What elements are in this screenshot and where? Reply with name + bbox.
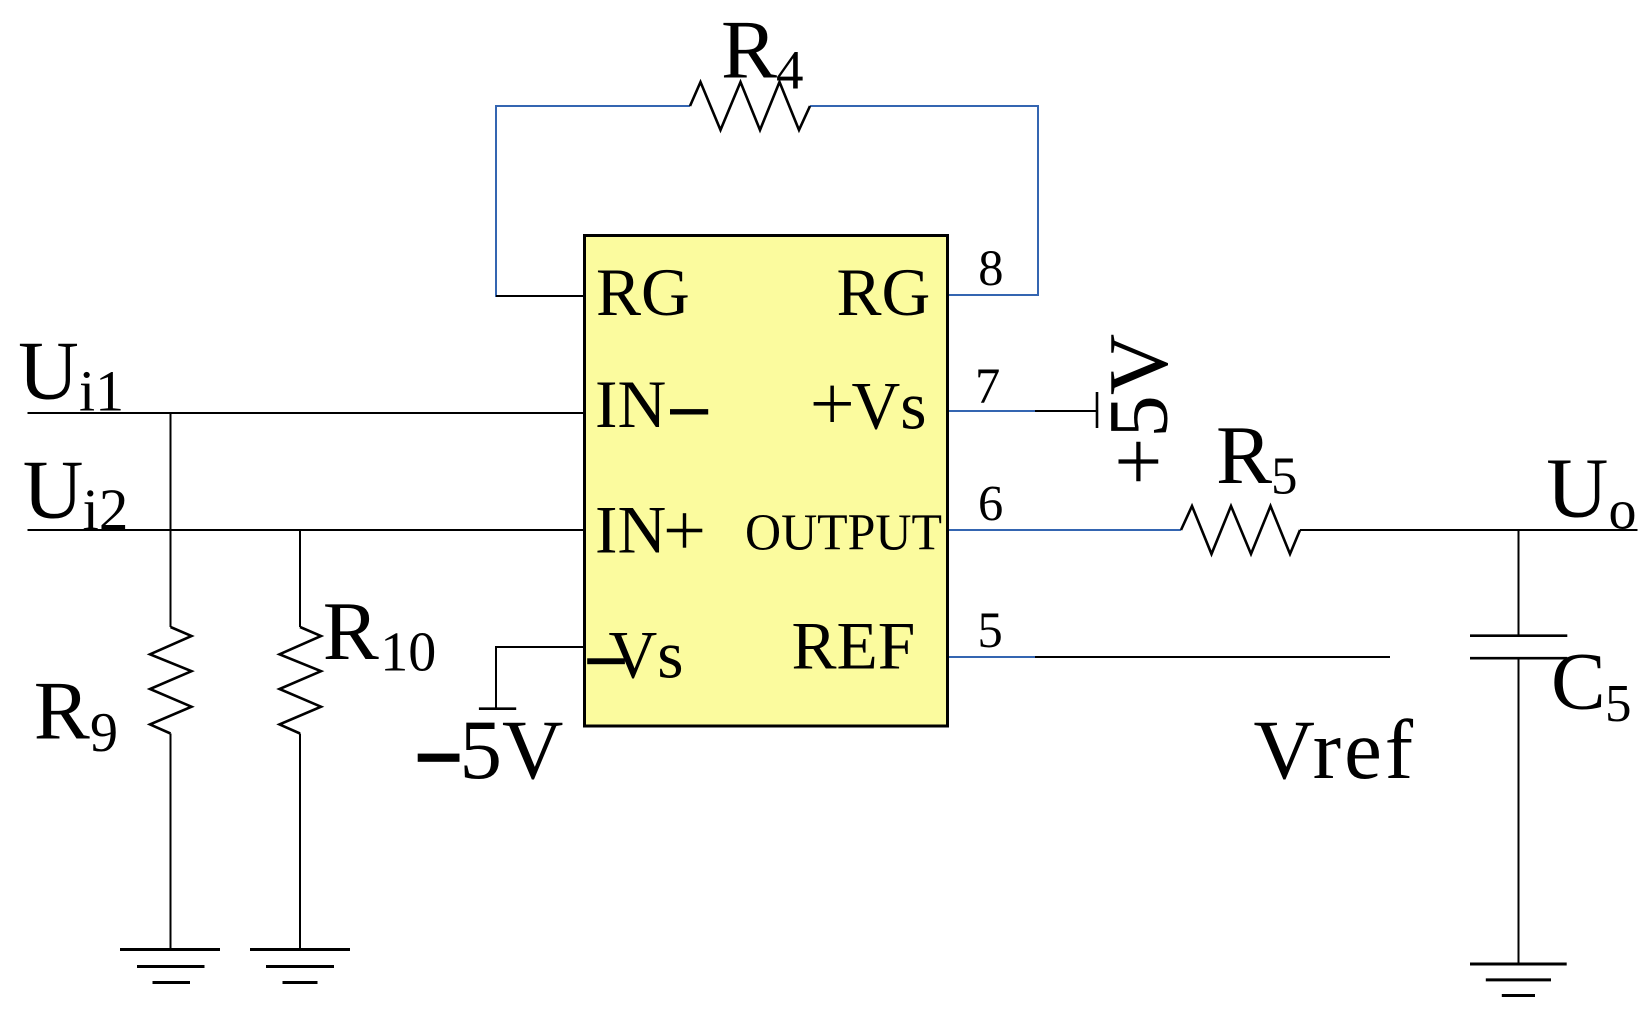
svg-text:5: 5: [1271, 448, 1298, 506]
svg-text:R: R: [34, 665, 90, 758]
svg-text:Vref: Vref: [1254, 703, 1417, 797]
svg-text:OUTPUT: OUTPUT: [745, 505, 942, 562]
svg-text:Vs: Vs: [852, 369, 927, 444]
svg-text:R: R: [1216, 409, 1272, 502]
svg-text:R: R: [721, 3, 777, 96]
svg-text:RG: RG: [837, 255, 931, 330]
svg-text:9: 9: [90, 702, 118, 764]
svg-text:REF: REF: [792, 609, 916, 684]
svg-text:5: 5: [978, 602, 1003, 658]
svg-text:8: 8: [978, 240, 1003, 296]
svg-text:IN: IN: [595, 367, 666, 442]
svg-text:+5V: +5V: [1092, 334, 1186, 486]
svg-text:IN: IN: [595, 493, 666, 568]
svg-text:i2: i2: [83, 477, 129, 543]
svg-text:10: 10: [380, 622, 436, 684]
svg-text:7: 7: [975, 358, 1000, 414]
svg-text:5V: 5V: [460, 703, 564, 797]
svg-text:5: 5: [1605, 675, 1632, 733]
svg-text:RG: RG: [596, 255, 690, 330]
svg-text:R: R: [323, 585, 379, 678]
svg-text:U: U: [1546, 440, 1608, 536]
svg-text:U: U: [18, 324, 79, 417]
svg-text:U: U: [23, 444, 84, 537]
svg-text:4: 4: [776, 40, 804, 101]
svg-text:Vs: Vs: [609, 618, 684, 693]
svg-text:6: 6: [978, 476, 1003, 532]
svg-text:i1: i1: [79, 359, 124, 424]
svg-text:o: o: [1609, 479, 1637, 541]
svg-text:C: C: [1551, 636, 1606, 727]
